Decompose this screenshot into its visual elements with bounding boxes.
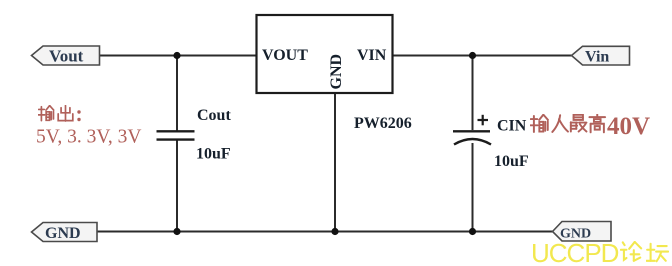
wire: CIN top lead — [472, 56, 474, 131]
svg-text:VOUT: VOUT — [262, 47, 308, 64]
svg-text:Cout: Cout — [197, 107, 231, 124]
net flag Vout — [32, 46, 100, 66]
net flag Vin — [572, 46, 630, 65]
annotation 输出： (red, hand-drawn glyphs) — [38, 106, 72, 121]
svg-text:40V: 40V — [607, 113, 650, 140]
wire: CIN bottom lead — [472, 143, 474, 232]
junction node: ground rail / regulator GND — [331, 228, 338, 235]
svg-text:GND: GND — [328, 54, 345, 90]
capacitor C1 Cout (plates) — [157, 131, 195, 139]
junction node: Vin rail / CIN — [469, 52, 476, 59]
svg-text:CIN: CIN — [497, 118, 527, 135]
svg-text:VIN: VIN — [357, 47, 387, 64]
net flag GND (left) — [32, 223, 98, 243]
net flag GND (right) — [553, 222, 612, 242]
polarity plus sign (CIN) — [478, 115, 489, 126]
svg-text:PW6206: PW6206 — [354, 115, 412, 132]
capacitor C2 CIN polarized (straight + curved plate) — [453, 131, 491, 144]
regulator U1 PW6206 body — [257, 15, 393, 93]
svg-text:10uF: 10uF — [196, 146, 231, 163]
wire: Vout flag to regulator VOUT pin (top left horizontal) — [99, 55, 256, 57]
wire: Cout bottom lead — [176, 140, 178, 232]
svg-text:Vout: Vout — [49, 47, 84, 66]
wire: regulator GND pin lead — [334, 93, 336, 232]
svg-text:5V, 3. 3V, 3V: 5V, 3. 3V, 3V — [36, 127, 141, 148]
svg-text:Vin: Vin — [585, 49, 609, 66]
wire: bottom ground rail — [97, 231, 553, 233]
svg-text:UCCPD: UCCPD — [531, 238, 619, 266]
annotation 输入最高 (red, hand-drawn glyphs) — [530, 114, 605, 132]
watermark 论坛 (yellow, hand-drawn glyphs) — [621, 242, 668, 261]
junction node: Vout rail / Cout — [173, 52, 180, 59]
junction node: ground rail / Cout — [173, 228, 180, 235]
annotation fullwidth colon (red) — [77, 110, 80, 121]
junction node: ground rail / CIN — [469, 228, 476, 235]
wire: regulator VIN pin to Vin flag (top right horizontal) — [393, 55, 572, 57]
wire: Cout top lead — [176, 56, 178, 131]
svg-text:GND: GND — [45, 225, 81, 242]
svg-text:10uF: 10uF — [494, 153, 529, 170]
